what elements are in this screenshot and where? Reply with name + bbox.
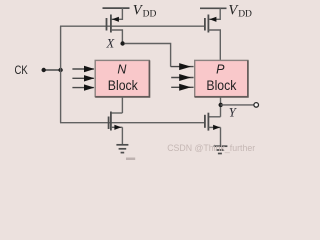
wire CK vertical rail [60, 26, 62, 123]
M1 channel bar [110, 15, 112, 33]
P block input 1 from X [171, 63, 194, 70]
ground right [214, 146, 228, 153]
node CK junction dot [58, 68, 62, 72]
VDD bar left [103, 7, 130, 9]
label VDD right [228, 2, 252, 19]
M3 source stub to ground [121, 127, 123, 145]
M4 gate bar [204, 115, 206, 128]
node Y dot [219, 103, 223, 107]
M4 channel bar [207, 113, 209, 131]
P block input 2 [171, 74, 193, 81]
node X dot [120, 41, 124, 45]
M2 channel bar [207, 15, 209, 33]
M1 source stub [111, 8, 123, 19]
svg-text:Block: Block [108, 77, 139, 93]
N block input 1 [72, 66, 94, 72]
output terminal circle [254, 103, 259, 108]
wire Y to output [221, 104, 254, 106]
VDD bar right [200, 7, 227, 9]
P block [195, 60, 248, 97]
wire N block bottom to M3 drain [121, 97, 123, 113]
M1 source arrow [112, 17, 119, 22]
N block [95, 60, 149, 97]
node CK terminal dot [42, 68, 46, 72]
N block input 2 [72, 75, 94, 81]
M2 source arrow [210, 17, 217, 22]
M1 drain to node X [111, 30, 123, 44]
wire X to P block input [125, 44, 171, 67]
pmos M1 precharge (top left) [103, 8, 130, 43]
N block input 3 [72, 84, 94, 90]
svg-text:CK: CK [15, 63, 29, 77]
svg-text:Block: Block [206, 77, 237, 93]
caption remnant bottom [126, 158, 135, 161]
nmos M4 precharge (bottom right) [205, 113, 221, 147]
label VDD left [133, 2, 157, 19]
svg-text:DD: DD [143, 10, 157, 20]
M3 source with arrow [111, 126, 123, 128]
wire bottom gate line CK to NMOS gates [60, 122, 205, 124]
M3 channel bar [110, 112, 112, 131]
pmos M2 evaluate (top right) [200, 8, 227, 60]
M2 source stub [208, 8, 220, 19]
M3 drain [111, 112, 123, 114]
wire P block bottom to node Y and M4 drain [220, 97, 222, 117]
svg-text:X: X [106, 36, 116, 50]
svg-text:DD: DD [238, 10, 252, 20]
M3 gate bar [108, 117, 110, 130]
svg-text:CSDN @Think_further: CSDN @Think_further [167, 143, 255, 153]
nmos M3 evaluate (bottom left) [109, 112, 123, 145]
M4 source with arrow [208, 126, 220, 128]
wire top gate line CK to PMOS gates [60, 25, 205, 27]
svg-text:P: P [216, 63, 225, 77]
M2 drain to P block [208, 30, 220, 60]
svg-text:N: N [117, 63, 127, 77]
M4 drain [208, 116, 220, 118]
M4 source stub to ground [220, 127, 222, 146]
M1 gate bar [106, 18, 108, 31]
P block input 3 [171, 84, 193, 91]
M2 gate bar [204, 18, 206, 31]
ground left [116, 145, 128, 153]
wire CK stub [44, 69, 61, 71]
